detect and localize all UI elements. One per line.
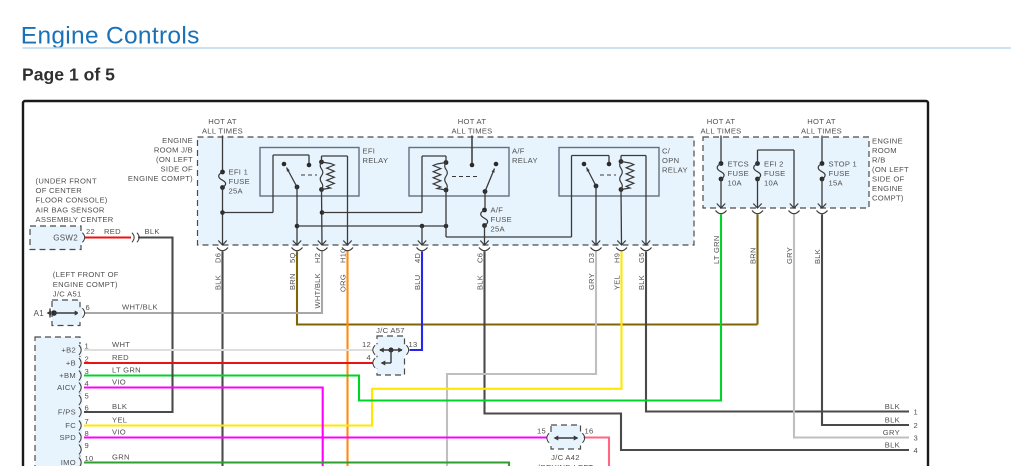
- svg-text:RED: RED: [112, 353, 129, 362]
- svg-text:F/PS: F/PS: [58, 408, 76, 417]
- svg-text:HOT AT: HOT AT: [458, 117, 487, 126]
- svg-text:BLK: BLK: [885, 441, 900, 450]
- svg-text:BRN: BRN: [748, 247, 757, 264]
- svg-text:(UNDER FRONT: (UNDER FRONT: [36, 177, 97, 186]
- svg-text:C/: C/: [662, 147, 671, 156]
- svg-text:FLOOR CONSOLE): FLOOR CONSOLE): [36, 196, 108, 205]
- svg-text:WHT: WHT: [112, 340, 130, 349]
- svg-text:25A: 25A: [229, 187, 244, 196]
- svg-text:FUSE: FUSE: [829, 169, 850, 178]
- svg-text:YEL: YEL: [612, 275, 621, 290]
- svg-text:Page 1 of 5: Page 1 of 5: [22, 65, 115, 85]
- svg-text:FUSE: FUSE: [229, 177, 250, 186]
- svg-text:4: 4: [366, 353, 371, 362]
- svg-text:+BM: +BM: [59, 371, 76, 380]
- svg-text:5: 5: [85, 392, 90, 401]
- svg-text:FUSE: FUSE: [491, 215, 512, 224]
- svg-text:15: 15: [537, 427, 546, 436]
- svg-text:6: 6: [86, 303, 91, 312]
- svg-text:STOP 1: STOP 1: [829, 160, 858, 169]
- svg-text:(ON LEFT: (ON LEFT: [156, 155, 193, 164]
- svg-text:H2: H2: [313, 253, 322, 263]
- svg-text:EFI 1: EFI 1: [229, 168, 249, 177]
- svg-text:AIR BAG SENSOR: AIR BAG SENSOR: [36, 205, 105, 214]
- svg-text:GRN: GRN: [112, 453, 130, 462]
- svg-text:ENGINE COMPT): ENGINE COMPT): [128, 174, 193, 183]
- svg-text:HOT AT: HOT AT: [208, 117, 237, 126]
- svg-text:YEL: YEL: [112, 416, 127, 425]
- svg-text:ENGINE: ENGINE: [872, 184, 903, 193]
- svg-text:7: 7: [85, 417, 90, 426]
- svg-text:D3: D3: [587, 253, 596, 263]
- svg-text:GSW2: GSW2: [53, 234, 78, 243]
- svg-text:SIDE OF: SIDE OF: [872, 175, 905, 184]
- svg-text:(ON LEFT: (ON LEFT: [872, 165, 909, 174]
- svg-text:25A: 25A: [491, 225, 506, 234]
- svg-text:A/F: A/F: [512, 147, 525, 156]
- svg-text:4D: 4D: [413, 253, 422, 263]
- svg-text:GRY: GRY: [587, 273, 596, 290]
- svg-text:GRY: GRY: [785, 247, 794, 264]
- svg-text:1: 1: [914, 408, 919, 417]
- svg-text:ENGINE COMPT): ENGINE COMPT): [53, 280, 118, 289]
- svg-text:SPD: SPD: [59, 433, 76, 442]
- svg-text:15A: 15A: [829, 179, 844, 188]
- svg-text:J/C A57: J/C A57: [376, 326, 405, 335]
- svg-text:EFI 2: EFI 2: [764, 160, 784, 169]
- svg-text:4: 4: [85, 379, 90, 388]
- svg-text:ALL TIMES: ALL TIMES: [451, 127, 492, 136]
- svg-text:ASSEMBLY CENTER: ASSEMBLY CENTER: [36, 215, 114, 224]
- svg-text:FUSE: FUSE: [764, 169, 785, 178]
- svg-text:BRN: BRN: [288, 273, 297, 290]
- svg-text:BLK: BLK: [885, 402, 900, 411]
- svg-text:BLU: BLU: [413, 275, 422, 291]
- svg-text:22: 22: [86, 227, 95, 236]
- svg-text:VIO: VIO: [112, 378, 126, 387]
- svg-text:D6: D6: [213, 253, 222, 263]
- svg-text:A1: A1: [34, 309, 45, 318]
- svg-text:HOT AT: HOT AT: [807, 117, 836, 126]
- svg-text:RELAY: RELAY: [662, 166, 688, 175]
- svg-text:ROOM J/B: ROOM J/B: [154, 146, 193, 155]
- svg-text:9: 9: [85, 441, 90, 450]
- svg-text:BLK: BLK: [213, 275, 222, 290]
- svg-text:BLK: BLK: [885, 416, 900, 425]
- svg-text:OF CENTER: OF CENTER: [36, 186, 83, 195]
- svg-text:C6: C6: [475, 253, 484, 263]
- svg-text:BLK: BLK: [145, 227, 160, 236]
- svg-text:H9: H9: [612, 253, 621, 263]
- svg-text:FC: FC: [65, 421, 76, 430]
- svg-text:2: 2: [914, 421, 919, 430]
- svg-text:+B2: +B2: [61, 346, 76, 355]
- svg-text:ENGINE: ENGINE: [872, 137, 903, 146]
- svg-text:RELAY: RELAY: [363, 156, 389, 165]
- svg-text:ENGINE: ENGINE: [162, 136, 193, 145]
- svg-text:ROOM: ROOM: [872, 146, 897, 155]
- svg-text:FUSE: FUSE: [728, 169, 749, 178]
- svg-text:6: 6: [85, 404, 90, 413]
- svg-text:SIDE OF: SIDE OF: [161, 165, 194, 174]
- svg-text:ETCS: ETCS: [728, 160, 749, 169]
- svg-text:BLK: BLK: [637, 275, 646, 290]
- svg-text:16: 16: [585, 427, 594, 436]
- svg-text:WHT/BLK: WHT/BLK: [313, 273, 322, 308]
- svg-text:ALL TIMES: ALL TIMES: [202, 127, 243, 136]
- svg-text:H10: H10: [338, 248, 347, 263]
- svg-text:LT GRN: LT GRN: [112, 366, 141, 375]
- svg-text:5Q: 5Q: [288, 252, 297, 263]
- svg-text:+B: +B: [66, 359, 76, 368]
- svg-text:(LEFT FRONT OF: (LEFT FRONT OF: [53, 270, 119, 279]
- svg-text:R/B: R/B: [872, 156, 886, 165]
- svg-text:EFI: EFI: [363, 147, 376, 156]
- svg-text:J/C A42: J/C A42: [551, 453, 580, 462]
- svg-text:A/F: A/F: [491, 206, 504, 215]
- svg-text:12: 12: [362, 340, 371, 349]
- svg-text:13: 13: [409, 340, 418, 349]
- svg-text:AICV: AICV: [57, 383, 77, 392]
- svg-text:WHT/BLK: WHT/BLK: [122, 303, 158, 312]
- svg-text:2: 2: [85, 355, 90, 364]
- svg-text:VIO: VIO: [112, 428, 126, 437]
- svg-text:BLK: BLK: [112, 402, 127, 411]
- svg-text:ALL TIMES: ALL TIMES: [801, 127, 842, 136]
- svg-text:RELAY: RELAY: [512, 156, 538, 165]
- svg-text:G5: G5: [637, 252, 646, 263]
- svg-text:3: 3: [85, 367, 90, 376]
- svg-text:ORG: ORG: [338, 274, 347, 292]
- svg-text:RED: RED: [104, 227, 121, 236]
- svg-text:10: 10: [85, 454, 94, 463]
- svg-text:ALL TIMES: ALL TIMES: [700, 127, 741, 136]
- svg-text:IMO: IMO: [61, 458, 76, 466]
- svg-text:J/C A51: J/C A51: [53, 290, 82, 299]
- svg-text:1: 1: [85, 342, 90, 351]
- svg-text:BLK: BLK: [813, 249, 822, 264]
- svg-text:4: 4: [914, 446, 919, 455]
- svg-text:10A: 10A: [728, 179, 743, 188]
- svg-text:8: 8: [85, 429, 90, 438]
- svg-text:GRY: GRY: [883, 428, 900, 437]
- svg-text:3: 3: [914, 434, 919, 443]
- svg-text:BLK: BLK: [475, 275, 484, 290]
- svg-text:LT GRN: LT GRN: [712, 235, 721, 264]
- svg-text:10A: 10A: [764, 179, 779, 188]
- svg-text:HOT AT: HOT AT: [707, 117, 736, 126]
- svg-text:COMPT): COMPT): [872, 194, 904, 203]
- svg-text:Engine Controls: Engine Controls: [21, 23, 200, 50]
- svg-text:OPN: OPN: [662, 156, 679, 165]
